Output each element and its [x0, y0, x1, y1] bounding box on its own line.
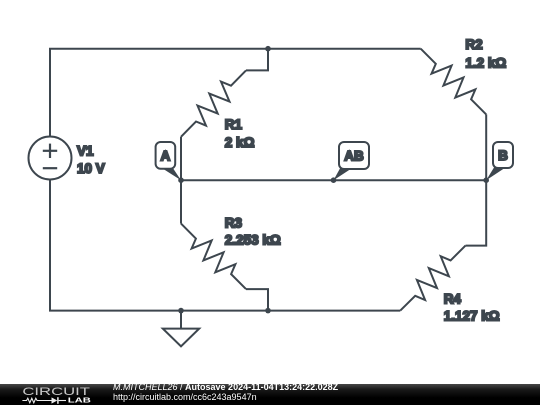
wire R3 bottom lead [246, 289, 268, 311]
wire R1 bottom lead [180, 137, 182, 180]
resistor R3 [181, 224, 246, 290]
node flag AB [334, 142, 370, 180]
wire right: R2 bottom to R4 top [466, 114, 487, 245]
wire R1 top lead [246, 49, 268, 71]
node dot A [178, 177, 184, 183]
svg-text:10 V: 10 V [77, 161, 105, 176]
svg-text:A: A [161, 149, 171, 164]
wire left/bottom: V1 bottom to R4 [50, 180, 400, 311]
footer bar [0, 384, 540, 405]
footer text [113, 383, 338, 402]
node dot ground [178, 308, 184, 314]
wire middle: node A to node B [181, 179, 486, 181]
resistor R2 [421, 49, 487, 115]
node flag A [156, 142, 181, 180]
svg-text:V1: V1 [77, 144, 94, 159]
wire R3 top lead [180, 180, 182, 223]
svg-text:AB: AB [344, 149, 364, 164]
svg-text:LAB: LAB [68, 396, 92, 405]
svg-text:2.253 kΩ: 2.253 kΩ [225, 232, 281, 247]
svg-text:R3: R3 [225, 215, 243, 230]
node flag B [486, 142, 513, 180]
svg-text:2 kΩ: 2 kΩ [225, 135, 255, 150]
svg-text:R4: R4 [444, 291, 462, 306]
resistor R4 [400, 246, 465, 311]
voltage source V1 [29, 137, 72, 180]
node dot AB [331, 177, 337, 183]
ground [180, 311, 182, 329]
CircuitLab logo [0, 384, 110, 405]
svg-text:1.2 kΩ: 1.2 kΩ [465, 55, 506, 70]
resistor R1 [181, 70, 246, 136]
node dot B [483, 177, 489, 183]
node dot R3 bottom [265, 308, 271, 314]
svg-text:B: B [498, 148, 508, 163]
wire top: V1 top to R2 [50, 49, 421, 137]
svg-text:R2: R2 [465, 37, 482, 52]
svg-text:1.127 kΩ: 1.127 kΩ [444, 308, 500, 323]
node dot top [265, 46, 271, 52]
svg-text:R1: R1 [225, 117, 243, 132]
